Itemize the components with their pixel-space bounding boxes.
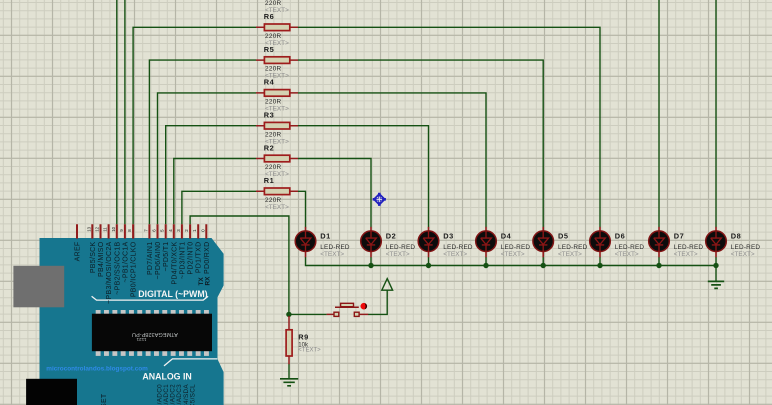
svg-text:~PD3/INT1: ~PD3/INT1 — [179, 242, 186, 280]
svg-text:<TEXT>: <TEXT> — [615, 251, 639, 258]
ground under R9 — [280, 379, 298, 386]
wire pin4 to R2 — [174, 159, 256, 225]
wire pin6 to R4 — [158, 93, 257, 224]
LED D8 LED-RED — [706, 227, 761, 258]
wire node to button left — [289, 313, 327, 315]
node junction button/R9 — [286, 312, 291, 317]
svg-text:PB4/MISO: PB4/MISO — [98, 241, 105, 277]
svg-text:~PB1/OC1A: ~PB1/OC1A — [122, 241, 129, 282]
svg-text:~PD6/AIN0: ~PD6/AIN0 — [155, 242, 162, 280]
wire R5 to D5 — [298, 60, 543, 227]
svg-text:PD7/AIN1: PD7/AIN1 — [147, 242, 154, 276]
analog pin labels — [156, 384, 196, 405]
svg-text:10: 10 — [111, 226, 116, 231]
svg-text:D7: D7 — [674, 232, 684, 241]
push button — [327, 303, 369, 317]
node junction at D8 bus — [713, 263, 718, 268]
node junction at D4 bus — [483, 263, 488, 268]
wire pin3 to R1 — [182, 191, 256, 224]
svg-text:D1: D1 — [320, 232, 330, 241]
svg-text:13: 13 — [86, 226, 91, 231]
resistor R5 220R — [256, 45, 298, 80]
svg-text:LED-RED: LED-RED — [674, 244, 704, 251]
wire R9 to ground — [288, 364, 290, 379]
svg-text:<TEXT>: <TEXT> — [298, 348, 321, 354]
resistor R4 220R — [256, 78, 298, 113]
svg-text:PD1/TXD: PD1/TXD — [196, 242, 203, 274]
wire R2 to D2 — [298, 159, 371, 228]
ground right of D8 — [708, 281, 724, 288]
wire pin9 to R7 (off-screen) — [124, 0, 126, 224]
resistor R7 value label (component off-screen) — [265, 0, 289, 14]
svg-text:RX: RX — [205, 276, 212, 286]
LED D6 LED-RED — [590, 227, 645, 258]
svg-text:ANALOG IN: ANALOG IN — [142, 372, 191, 382]
svg-text:12: 12 — [95, 226, 100, 231]
svg-text:RESET: RESET — [101, 393, 108, 405]
origin marker — [373, 193, 386, 206]
wire D4 cathode drop — [485, 257, 487, 266]
LED D3 LED-RED — [418, 227, 473, 258]
power jack — [26, 379, 77, 405]
svg-text:LED-RED: LED-RED — [731, 244, 761, 251]
svg-text:AREF: AREF — [75, 242, 82, 262]
node junction at D3 bus — [426, 263, 431, 268]
svg-text:R1: R1 — [264, 176, 274, 185]
node junction at D7 bus — [656, 263, 661, 268]
svg-text:220R: 220R — [265, 0, 282, 7]
svg-text:LED-RED: LED-RED — [558, 244, 588, 251]
wire D3 cathode drop — [428, 257, 430, 266]
Arduino pin numbers — [86, 226, 205, 231]
Arduino pin stubs — [77, 224, 206, 238]
node junction at D2 bus — [368, 263, 373, 268]
svg-text:<TEXT>: <TEXT> — [731, 251, 755, 258]
wire D6 cathode drop — [599, 257, 601, 266]
wire D7 cathode drop — [658, 257, 660, 266]
TX RX labels — [198, 276, 211, 286]
svg-text:<TEXT>: <TEXT> — [320, 251, 344, 258]
svg-text:<TEXT>: <TEXT> — [265, 7, 289, 14]
svg-text:<TEXT>: <TEXT> — [501, 251, 525, 258]
wire R1 to D1 — [298, 191, 306, 227]
wire D8 bus to ground — [715, 266, 717, 282]
IC ATMEGA328P — [92, 310, 212, 356]
wire pin5 to R3 — [166, 126, 256, 225]
svg-text:PD4/T0/XCK: PD4/T0/XCK — [171, 241, 178, 284]
svg-text:~PB3/MOSI/OC2A: ~PB3/MOSI/OC2A — [106, 241, 113, 303]
wire pin8 to R6 — [133, 27, 256, 224]
resistor R1 220R — [256, 176, 298, 211]
svg-text:DIGITAL (~PWM): DIGITAL (~PWM) — [138, 289, 207, 299]
resistor R9 10k — [286, 316, 321, 364]
svg-text:<TEXT>: <TEXT> — [558, 251, 582, 258]
svg-text:<TEXT>: <TEXT> — [443, 251, 467, 258]
svg-text:PB5/SCK: PB5/SCK — [90, 241, 97, 273]
svg-text:D3: D3 — [443, 232, 453, 241]
wire D8 cathode drop — [715, 257, 717, 266]
svg-text:220R: 220R — [265, 197, 282, 204]
wire pin7 to R5 — [149, 60, 256, 224]
svg-text:LED-RED: LED-RED — [386, 244, 416, 251]
LED D1 LED-RED — [295, 227, 350, 258]
svg-text:220R: 220R — [265, 131, 282, 138]
svg-text:1121: 1121 — [136, 337, 146, 342]
svg-text:R5: R5 — [264, 45, 274, 54]
LED D7 LED-RED — [649, 227, 704, 258]
svg-text:<TEXT>: <TEXT> — [265, 204, 289, 211]
LED D2 LED-RED — [361, 227, 416, 258]
svg-text:11: 11 — [103, 227, 108, 232]
svg-text:D5: D5 — [558, 232, 568, 241]
LED D5 LED-RED — [533, 227, 588, 258]
svg-text:220R: 220R — [265, 33, 282, 40]
svg-text:R2: R2 — [264, 143, 274, 152]
svg-text:LED-RED: LED-RED — [443, 244, 473, 251]
svg-text:<TEXT>: <TEXT> — [386, 251, 410, 258]
svg-text:ATMEGA328P-PU: ATMEGA328P-PU — [132, 331, 178, 337]
wire button right to power terminal — [368, 290, 387, 314]
DIGITAL (~PWM) header silk — [92, 289, 209, 300]
resistor R6 220R — [256, 12, 298, 47]
node junction at D5 bus — [541, 263, 546, 268]
svg-text:220R: 220R — [265, 99, 282, 106]
svg-text:LED-RED: LED-RED — [615, 244, 645, 251]
USB connector — [13, 266, 64, 308]
svg-text:LED-RED: LED-RED — [320, 244, 350, 251]
svg-text:PD2/INT0: PD2/INT0 — [188, 242, 195, 275]
svg-text:PC5/ADC5/SCL: PC5/ADC5/SCL — [190, 384, 197, 405]
svg-text:R4: R4 — [264, 78, 275, 87]
power terminal (VCC arrow) — [382, 279, 393, 291]
wire top to D7 — [658, 0, 660, 227]
svg-text:~PB2/SS/OC1B: ~PB2/SS/OC1B — [114, 241, 121, 294]
wire D5 cathode drop — [542, 257, 544, 266]
svg-text:<TEXT>: <TEXT> — [674, 251, 698, 258]
LED D4 LED-RED — [476, 227, 531, 258]
svg-text:~PD5/T1: ~PD5/T1 — [163, 242, 170, 272]
svg-text:220R: 220R — [265, 164, 282, 171]
svg-text:D4: D4 — [501, 232, 512, 241]
svg-text:D6: D6 — [615, 232, 625, 241]
wire pin2 to button node — [190, 216, 289, 314]
wire LED cathode bus — [306, 257, 717, 266]
wire R3 to D3 — [298, 126, 429, 228]
svg-text:microcontrolandos.blogspot.com: microcontrolandos.blogspot.com — [46, 365, 148, 372]
Arduino digital pin labels — [75, 241, 211, 304]
svg-text:D2: D2 — [386, 232, 396, 241]
node junction at D6 bus — [597, 263, 602, 268]
svg-text:R9: R9 — [298, 333, 308, 342]
svg-text:220R: 220R — [265, 66, 282, 73]
wire top to D8 — [715, 0, 717, 227]
wire R6 to D6 — [298, 27, 600, 227]
svg-text:LED-RED: LED-RED — [501, 244, 531, 251]
wire pin10 to R8 (off-screen) — [116, 0, 118, 224]
svg-text:PB0/ICP1/CLKO: PB0/ICP1/CLKO — [131, 241, 138, 297]
svg-text:D8: D8 — [731, 232, 741, 241]
svg-text:PD0/RXD: PD0/RXD — [204, 242, 211, 274]
resistor R2 220R — [256, 143, 298, 178]
wire R4 to D4 — [298, 93, 486, 227]
svg-text:R3: R3 — [264, 111, 274, 120]
resistor R3 220R — [256, 111, 298, 146]
ANALOG IN header silk — [142, 359, 217, 382]
wire D2 cathode drop — [370, 257, 372, 266]
Arduino UNO board U1 — [40, 238, 224, 405]
